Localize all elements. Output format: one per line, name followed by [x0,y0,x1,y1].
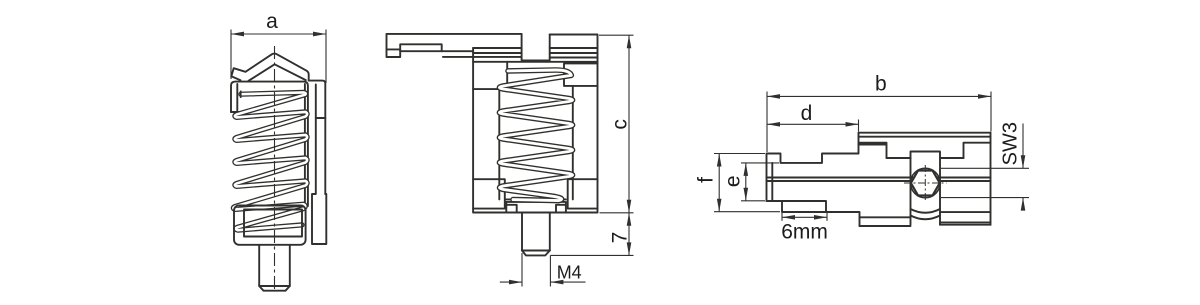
svg-text:M4: M4 [557,262,582,282]
svg-text:d: d [801,102,813,125]
dimension b [767,92,991,153]
view2 slider feet [506,202,516,212]
svg-text:6mm: 6mm [781,220,828,243]
view1 roof cap outer [231,54,308,81]
view3 fold double line left [859,143,887,158]
view1 right rail inner edge [315,85,317,195]
view2 top wing [387,34,522,57]
view3 bottom strip [860,217,911,226]
view3 right edge [990,133,992,225]
dimension c [599,35,634,213]
svg-text:e: e [722,175,745,187]
view2 top plate laminates left [387,48,522,57]
view3 band bump [911,152,941,159]
dimension 7 [550,213,633,256]
view1 centerline [274,46,276,293]
view2 body outline [473,48,597,213]
view2 top right block [550,35,598,62]
view2 cavity walls [499,86,573,199]
view3 top plate lines [859,133,991,137]
view1 collar band and side walls [231,82,308,206]
svg-text:c: c [608,119,631,129]
dimension SW3 [941,124,1029,207]
dimension f [714,154,780,212]
view2 body top line [473,61,597,63]
dimension d [767,120,859,132]
view1 slider nut [244,210,302,237]
svg-text:a: a [266,10,278,33]
view2 screw chamfer [522,251,550,256]
view3 slot seam lines [767,178,991,182]
view1 spring top bar end [240,91,242,98]
view3 hex centerlines [904,165,947,201]
view3 band verticals [911,158,941,225]
svg-text:b: b [875,73,887,96]
view2 inner block top-right [564,63,597,86]
view3 bottom-left edge [767,201,860,226]
view1 rail slot step [316,117,326,119]
view3 band arcs [911,209,941,213]
dimension a [231,30,326,84]
view2 slider plate [505,199,566,202]
view2 inner block top-left [473,62,507,89]
view1 spring [233,92,307,230]
view3 fold line right [964,143,991,158]
view2 bottom corner blocks [473,179,505,208]
view1 right bottom tab [312,194,326,244]
view3 screw head circle [911,168,940,197]
view2 top notch [522,34,550,61]
svg-text:7: 7 [608,232,631,244]
view3 plateau [887,157,964,159]
dimension M4 [500,253,586,287]
svg-text:f: f [695,177,718,183]
view3 foot slot inner [782,201,826,212]
dimension 6mm [782,213,827,221]
dimension e [741,163,779,201]
view3 left section inner fold [771,163,773,201]
view2 spring [499,70,572,201]
view1 screw chamfer [259,286,290,291]
view3 right section lines [940,212,991,225]
view3 left section outline [767,133,859,201]
svg-text:SW3: SW3 [1000,122,1022,165]
view3 hex [911,171,940,196]
view1 screw shank [259,246,290,287]
view1 roof cap inner [249,64,306,81]
view1 bottom frame [234,206,306,245]
view2 screw shank [522,213,550,251]
view1 right rail top link [309,81,326,194]
